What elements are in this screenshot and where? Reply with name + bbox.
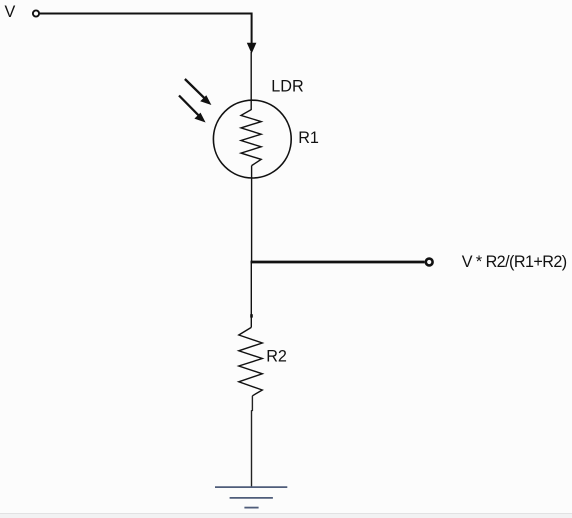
svg-text:LDR: LDR [271,78,303,96]
light arrow 1 [185,79,212,105]
output terminal (open circle) [426,259,433,266]
ground line 1 [215,486,287,488]
wire R2 to ground [251,396,254,487]
wire joint blob [250,314,253,317]
wire node to R2 [250,262,252,327]
svg-text:V * R2/(R1+R2): V * R2/(R1+R2) [462,253,567,271]
ground line 3 [244,507,258,509]
input terminal (open circle) [33,10,39,16]
wire corner down to arrow [251,13,253,44]
wire arrow to LDR [250,52,252,110]
bottom page strip [0,513,572,518]
ground line 2 [230,497,273,499]
light arrow 2 [179,96,206,123]
resistor R1 zigzag [241,110,261,166]
svg-text:R2: R2 [266,348,287,366]
wire V terminal to corner [40,13,252,15]
svg-text:V: V [5,3,16,21]
resistor R2 zigzag [239,327,262,395]
wire LDR to node [251,166,253,264]
current arrowhead [247,43,257,54]
svg-text:R1: R1 [298,129,319,147]
LDR circle R1 [213,100,291,178]
node output wire (thick) [251,261,425,264]
